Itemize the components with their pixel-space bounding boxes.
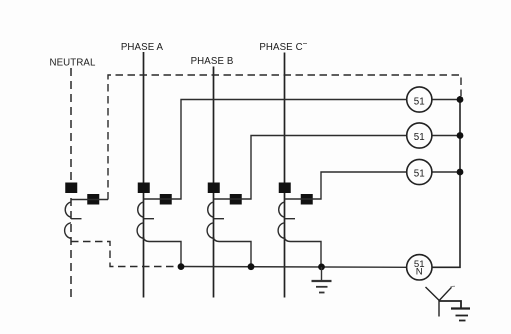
CT phase B: polarity mark square on line <box>208 183 220 194</box>
junction dot bus C / ground tap <box>318 264 325 271</box>
wire phase C conductor <box>284 53 286 298</box>
CT neutral: secondary polarity mark square <box>87 194 99 205</box>
ground symbol at residual bus <box>312 267 332 293</box>
relay 51 phase B <box>407 123 432 148</box>
svg-text:51: 51 <box>414 132 425 143</box>
svg-text:N: N <box>416 267 423 278</box>
CT phase C secondary winding arcs <box>278 202 284 238</box>
wire neutral conductor (dashed vertical) <box>70 68 72 299</box>
relay 51 phase C <box>407 159 432 184</box>
relay 51 phase A <box>407 87 432 112</box>
CT phase B winding tap tick <box>214 218 225 220</box>
CT neutral winding tap tick <box>71 218 82 220</box>
CT phase B secondary winding arcs <box>207 202 213 238</box>
CT phase B: secondary polarity mark square <box>230 194 242 205</box>
junction dot right bus A <box>457 96 464 103</box>
svg-text:PHASE A: PHASE A <box>121 42 164 53</box>
CT phase A winding tap tick <box>144 218 155 220</box>
footnote mark after PHASE C <box>303 43 307 45</box>
CT phase A: polarity mark square on line <box>138 183 150 194</box>
wire relay output C to right bus <box>432 171 460 173</box>
station ground connection symbol <box>426 286 471 320</box>
wire phase C CT bottom lead to bus <box>285 237 322 267</box>
relay 51N ground <box>407 255 432 280</box>
svg-text:51: 51 <box>414 96 425 107</box>
wire bottom residual bus <box>181 266 407 269</box>
junction dot bus B <box>248 263 255 270</box>
junction dot right bus B <box>457 132 464 139</box>
CT neutral: polarity mark square on line <box>65 183 77 194</box>
CT phase C: secondary polarity mark square <box>301 194 313 205</box>
wire phase A CT bottom lead to bus <box>144 237 182 267</box>
CT phase C winding tap tick <box>285 218 296 220</box>
wire phase B CT secondary top lead to relay riser <box>214 136 407 200</box>
wire relay output B to right bus <box>432 135 460 137</box>
wire phase B conductor <box>213 67 215 298</box>
wire phase A conductor <box>143 52 145 298</box>
CT phase A secondary winding arcs <box>137 202 143 238</box>
wire relay output A to right bus <box>432 99 460 101</box>
svg-text:51: 51 <box>414 169 425 180</box>
wire phase B CT bottom lead to bus <box>214 237 252 267</box>
wire neutral CT secondary lead <box>71 199 108 201</box>
junction dot bus A <box>178 263 185 270</box>
wire dashed neutral CT bottom return <box>71 242 181 267</box>
wire dashed neutral relay loop top <box>108 75 461 200</box>
CT phase C: polarity mark square on line <box>279 183 291 194</box>
wire phase A CT secondary top lead to relay riser <box>144 100 407 200</box>
wire phase C CT secondary top lead to relay riser <box>285 172 407 199</box>
svg-text:PHASE C: PHASE C <box>259 42 302 53</box>
CT neutral secondary winding arcs <box>65 202 71 238</box>
CT phase A: secondary polarity mark square <box>160 194 172 205</box>
svg-text:NEUTRAL: NEUTRAL <box>49 58 96 69</box>
wire right return bus <box>432 96 460 267</box>
junction dot right bus C <box>457 169 464 176</box>
svg-text:PHASE B: PHASE B <box>191 56 234 67</box>
